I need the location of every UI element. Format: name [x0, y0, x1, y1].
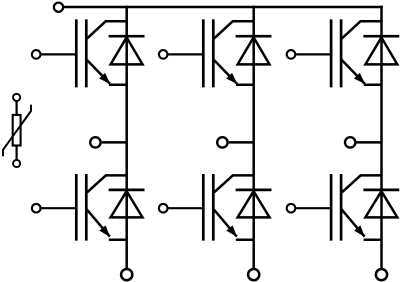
wire: Q1 gate lead [41, 53, 76, 55]
thermistor RT1 (NTC temperature sensor) [3, 105, 31, 157]
terminal: emitter U (bottom of leg 1) [121, 269, 132, 280]
transistor Q1 (IGBT, high-side U) [76, 19, 110, 87]
diode D1 (freewheel, anti-parallel with Q1) [109, 36, 145, 64]
transistor Q6 (IGBT, low-side W) [331, 174, 365, 241]
wire: Q5 emitter connection [364, 84, 382, 87]
terminal: emitter V (bottom of leg 2) [248, 269, 259, 280]
terminal: thermistor top [13, 94, 20, 101]
terminal: DC+ (top left) [54, 3, 63, 12]
wire: phase W terminal lead [357, 141, 382, 144]
wire: Q6 gate lead [296, 207, 331, 209]
terminal: gate of Q2 (low-side U) [32, 204, 41, 213]
terminal: gate of Q5 (high-side W) [287, 50, 296, 59]
wire: phase W vertical bus (leg 3) [380, 6, 383, 270]
wire: phase V terminal lead [229, 141, 254, 144]
wire: phase U vertical bus (leg 1) [125, 6, 128, 270]
diode D5 (freewheel, anti-parallel with Q5) [363, 36, 399, 64]
terminal: gate of Q6 (low-side W) [287, 204, 296, 213]
diode D6 (freewheel, anti-parallel with Q6) [363, 190, 399, 218]
diode D3 (freewheel, anti-parallel with Q3) [236, 36, 272, 64]
wire: phase U terminal lead [102, 141, 127, 144]
wire: Q3 emitter connection [236, 84, 254, 87]
wire: DC+ top rail [64, 6, 383, 9]
transistor Q3 (IGBT, high-side V) [203, 19, 237, 87]
wire: Q4 emitter connection [236, 239, 254, 242]
terminal: thermistor bottom [13, 160, 20, 167]
wire: Q3 gate lead [168, 53, 203, 55]
wire: Q5 gate lead [296, 53, 331, 55]
wire: Q4 collector connection [232, 174, 254, 177]
terminal: gate of Q4 (low-side V) [159, 204, 168, 213]
wire: phase V vertical bus (leg 2) [252, 6, 255, 270]
wire: thermistor top lead [16, 101, 18, 115]
transistor Q5 (IGBT, high-side W) [331, 19, 365, 87]
terminal: emitter W (bottom of leg 3) [376, 269, 387, 280]
wire: thermistor bottom lead [16, 147, 18, 160]
transistor Q4 (IGBT, low-side V) [203, 174, 237, 241]
diode D2 (freewheel, anti-parallel with Q2) [109, 190, 145, 218]
terminal: phase U output [90, 137, 100, 147]
wire: Q2 gate lead [41, 207, 76, 209]
diode D4 (freewheel, anti-parallel with Q4) [236, 190, 272, 218]
terminal: gate of Q3 (high-side V) [159, 50, 168, 59]
terminal: gate of Q1 (high-side U) [32, 50, 41, 59]
wire: Q1 emitter connection [109, 84, 127, 87]
wire: Q6 collector connection [360, 174, 382, 177]
wire: Q6 emitter connection [364, 239, 382, 242]
terminal: phase V output [217, 137, 227, 147]
wire: Q2 collector connection [105, 174, 127, 177]
wire: Q5 collector connection [360, 20, 382, 23]
wire: Q3 collector connection [232, 20, 254, 23]
transistor Q2 (IGBT, low-side U) [76, 174, 110, 241]
terminal: phase W output [345, 137, 355, 147]
wire: Q1 collector connection [105, 20, 127, 23]
wire: Q4 gate lead [168, 207, 203, 209]
wire: Q2 emitter connection [109, 239, 127, 242]
